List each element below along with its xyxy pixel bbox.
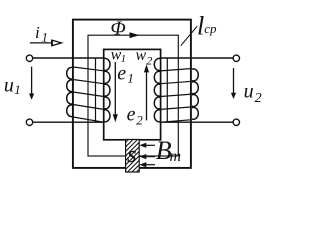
- svg-text:2: 2: [146, 54, 152, 68]
- svg-text:e: e: [117, 63, 126, 85]
- svg-text:w: w: [136, 47, 147, 64]
- svg-text:2: 2: [255, 91, 262, 106]
- svg-text:l: l: [197, 11, 204, 40]
- svg-text:Φ: Φ: [111, 18, 126, 40]
- svg-text:m: m: [170, 148, 182, 165]
- svg-text:i: i: [35, 23, 40, 42]
- svg-text:1: 1: [127, 70, 133, 85]
- svg-text:u: u: [4, 75, 14, 97]
- svg-text:1: 1: [42, 31, 48, 45]
- svg-text:u: u: [244, 80, 254, 102]
- svg-text:e: e: [127, 103, 136, 125]
- svg-text:S: S: [127, 147, 136, 166]
- svg-text:2: 2: [136, 112, 143, 127]
- svg-text:1: 1: [14, 82, 20, 97]
- svg-text:cp: cp: [204, 21, 217, 36]
